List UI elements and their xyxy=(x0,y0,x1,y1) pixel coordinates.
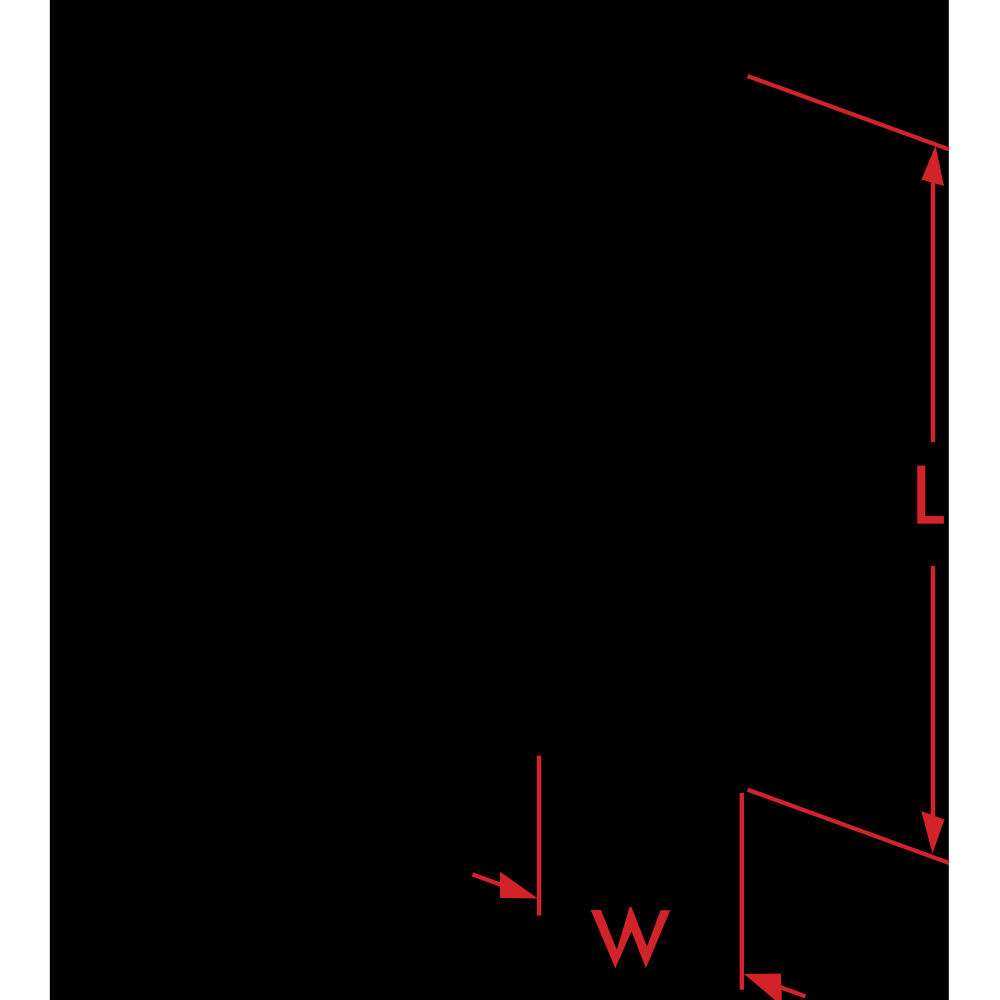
bottom edge reference line xyxy=(748,790,949,863)
label L xyxy=(917,466,944,524)
W dimension right tail xyxy=(778,986,806,996)
top edge reference line xyxy=(748,76,949,149)
W left extension line xyxy=(537,756,541,916)
L dimension up arrowhead xyxy=(922,146,945,187)
W dimension left tail xyxy=(472,874,508,887)
W dimension right arrowhead xyxy=(744,974,782,1000)
L dimension down arrowhead xyxy=(921,811,944,854)
L dimension upper shaft xyxy=(931,180,935,442)
W right extension line xyxy=(740,793,744,990)
W dimension left arrowhead xyxy=(500,872,538,899)
label W xyxy=(591,907,671,968)
L dimension lower shaft xyxy=(931,566,935,816)
